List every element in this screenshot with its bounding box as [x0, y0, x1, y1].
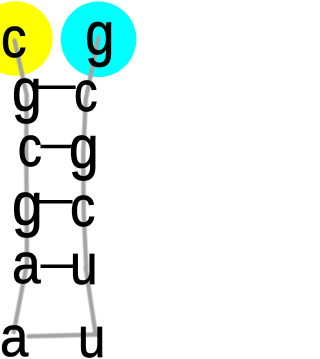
backbone g2-c3	[24, 95, 29, 152]
svg-text:g: g	[12, 172, 43, 239]
svg-text:u: u	[70, 234, 98, 297]
backbone g4-a5	[25, 209, 29, 268]
backbone a5-a6	[14, 267, 26, 332]
base pair a5-u8	[41, 264, 74, 268]
svg-text:c: c	[18, 115, 42, 179]
backbone c11-g12	[86, 38, 99, 100]
3' end circle (cyan)	[61, 2, 137, 78]
backbone u8-c9	[84, 211, 87, 268]
svg-text:a: a	[0, 305, 29, 359]
svg-text:g: g	[85, 0, 114, 67]
svg-text:u: u	[78, 307, 105, 359]
svg-text:g: g	[69, 115, 99, 182]
backbone c9-g10	[81, 152, 86, 211]
svg-text:c: c	[70, 175, 95, 238]
svg-text:a: a	[12, 233, 41, 296]
backbone u7-u8	[86, 267, 96, 334]
base pair g2-c11	[38, 86, 76, 90]
backbone g10-c11	[83, 99, 86, 152]
base pair g4-c9	[39, 200, 73, 204]
5' end circle (yellow)	[0, 1, 53, 75]
backbone c3-g4	[24, 152, 29, 209]
base pair c3-g10	[41, 145, 72, 149]
backbone c1-g2	[15, 41, 27, 96]
backbone a6-u7 loop	[29, 335, 99, 337]
